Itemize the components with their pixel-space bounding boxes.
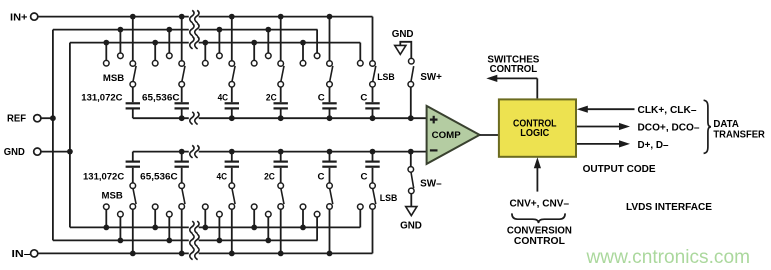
svg-text:LVDS INTERFACE: LVDS INTERFACE <box>626 202 712 213</box>
capacitor C1 (MSB, 131,072C) top <box>126 87 140 118</box>
switch S3 bottom: GND contact stub <box>202 204 208 230</box>
svg-text:2C: 2C <box>264 172 275 183</box>
switch S2 bottom: arm and pivot <box>179 183 185 204</box>
switch S2 bottom: throw contact from IN- rail <box>179 204 185 257</box>
label value C top <box>318 92 325 103</box>
wire REF bus: top rail2, left drop, bottom rail2 <box>53 30 318 241</box>
switch S5 bottom: arm and pivot <box>327 183 333 204</box>
label value 65,536C top <box>142 92 180 103</box>
switch SW- with wire to GND <box>408 149 414 207</box>
watermark www.cntronics.com <box>586 246 750 268</box>
svg-text:TRANSFER: TRANSFER <box>713 129 765 140</box>
label value 2C top <box>266 92 277 103</box>
junction REF bus tap <box>50 115 56 121</box>
label LVDS INTERFACE <box>626 202 712 213</box>
svg-text:2C: 2C <box>266 92 277 103</box>
switch S2 top: REF contact stub <box>166 27 172 59</box>
svg-text:DCO+, DCO–: DCO+, DCO– <box>638 123 700 134</box>
switch S5 top: REF contact stub <box>314 30 320 59</box>
switch S3 bottom: REF contact stub <box>217 211 223 243</box>
node IN+ terminal and label <box>10 12 38 23</box>
capacitor C5 (C) bottom <box>322 149 336 183</box>
wire-break mark on rail3 lower <box>190 221 199 234</box>
label value 4C bottom <box>217 172 228 183</box>
capacitor C5 (C) top <box>322 87 336 121</box>
label value 2C bottom <box>264 172 275 183</box>
switch S4 top: REF contact stub <box>265 27 271 59</box>
switch S1 bottom: arm and pivot <box>130 183 136 204</box>
switch S6 top: GND contact stub (rail3 end) <box>358 43 364 66</box>
svg-text:4C: 4C <box>218 92 229 103</box>
switch S1 top: GND contact stub <box>103 40 109 66</box>
svg-text:IN+: IN+ <box>10 12 28 23</box>
ground symbol (bottom, below SW-) <box>400 207 422 232</box>
switch S4 top: arm and pivot <box>278 66 284 87</box>
switch S3 bottom: arm and pivot <box>229 183 235 204</box>
wire-break mark on bottom common rail <box>190 145 199 158</box>
label value 65,536C bottom <box>140 172 178 183</box>
switch S6 bottom: throw contact from IN- rail <box>370 204 376 254</box>
label CNV+, CNV- <box>510 199 570 210</box>
switch S1 bottom: throw contact from IN- rail <box>130 204 136 257</box>
switch S3 top: arm and pivot <box>229 66 235 87</box>
control logic block U2 <box>499 99 576 156</box>
switch S6 bottom: GND contact stub (rail3 end) <box>358 204 364 227</box>
label D+, D- <box>638 140 669 151</box>
switch S1 top: REF contact stub <box>118 27 124 59</box>
svg-text:GND: GND <box>4 147 25 158</box>
svg-text:65,536C: 65,536C <box>140 172 178 183</box>
label DCO+, DCO- <box>638 123 700 134</box>
capacitor C4 (2C) bottom <box>274 149 288 183</box>
wire IN+ top rail (rail1) <box>38 16 373 18</box>
label OUTPUT CODE <box>583 164 656 175</box>
svg-text:MSB: MSB <box>103 73 124 84</box>
switch S6 bottom: arm and pivot <box>370 183 376 204</box>
wire GND terminal to GND bus <box>41 151 70 153</box>
switch S5 bottom: REF contact stub <box>314 211 320 240</box>
label value C bottom <box>361 172 368 183</box>
brace data-transfer group <box>704 100 711 153</box>
wire GND bus: top rail3, left drop, bottom rail3 <box>70 43 360 228</box>
switch S5 top: arm and pivot <box>327 66 333 87</box>
capacitor C4 (2C) top <box>274 87 288 121</box>
svg-text:C: C <box>361 172 368 183</box>
capacitor C2 (65,536C) bottom <box>175 149 189 183</box>
svg-text:LSB: LSB <box>380 193 398 204</box>
switch S4 bottom: GND contact stub <box>251 204 257 230</box>
switch S2 top: throw contact from IN+ rail <box>179 14 185 67</box>
switch SW+ with wire to GND <box>400 42 414 121</box>
switch S4 bottom: throw contact from IN- rail <box>278 204 284 257</box>
svg-text:SW–: SW– <box>420 178 442 189</box>
switch S3 top: throw contact from IN+ rail <box>229 14 235 67</box>
wire IN- bottom rail <box>38 252 373 254</box>
label CLK+, CLK- <box>638 105 697 116</box>
svg-text:www.cntronics.com: www.cntronics.com <box>586 246 750 268</box>
capacitor C3 (4C) top <box>225 87 239 121</box>
ground symbol (top, above SW+) <box>392 29 414 54</box>
capacitor C6 (LSB, C) top <box>365 87 379 121</box>
svg-text:GND: GND <box>392 29 414 40</box>
label value C bottom <box>318 172 325 183</box>
svg-text:GND: GND <box>400 221 422 232</box>
switch S3 top: GND contact stub <box>202 40 208 66</box>
switch S1 bottom: GND contact stub <box>103 204 109 230</box>
svg-text:OUTPUT CODE: OUTPUT CODE <box>583 164 656 175</box>
svg-text:LSB: LSB <box>377 72 395 83</box>
label SWITCHES CONTROL <box>487 55 539 76</box>
svg-text:COMP: COMP <box>432 130 461 140</box>
switch S4 top: GND contact stub <box>251 40 257 66</box>
switch S1 top: arm and pivot <box>130 66 136 87</box>
switch S6 top: throw contact from IN+ rail <box>370 17 376 67</box>
capacitor C1 (MSB, 131,072C) bottom <box>126 152 140 183</box>
svg-text:C: C <box>318 172 325 183</box>
label CONVERSION CONTROL <box>507 225 572 246</box>
wire comparator output to control logic <box>480 134 499 136</box>
label MSB bottom <box>102 191 123 202</box>
svg-text:CONVERSION: CONVERSION <box>507 225 572 236</box>
svg-text:131,072C: 131,072C <box>81 92 122 103</box>
svg-text:CONTROL: CONTROL <box>490 64 538 75</box>
switch S5 top: throw contact from IN+ rail <box>327 14 333 67</box>
switch S5 bottom: throw contact from IN- rail <box>327 204 333 257</box>
capacitor C6 (LSB, C) bottom <box>365 149 379 183</box>
brace conversion-control group (underbrace) <box>512 213 565 223</box>
wire-break mark on rail3 (GND) <box>190 36 199 49</box>
switch S6 top: arm and pivot <box>370 66 376 87</box>
svg-text:65,536C: 65,536C <box>142 92 180 103</box>
wire-break mark on rail1 (IN+) <box>190 10 199 23</box>
svg-text:SW+: SW+ <box>420 72 442 83</box>
switch S4 bottom: arm and pivot <box>278 183 284 204</box>
switch S1 top: throw contact from IN+ rail <box>130 14 136 67</box>
svg-text:CLK+, CLK–: CLK+, CLK– <box>638 105 697 116</box>
wire REF terminal to REF bus <box>41 117 53 119</box>
switch S4 bottom: REF contact stub <box>265 211 271 243</box>
label SW- <box>420 178 442 189</box>
switch S5 bottom: GND contact stub <box>300 204 306 230</box>
switch S2 bottom: GND contact stub <box>152 204 158 230</box>
label LSB top <box>377 72 395 83</box>
wire-break mark on rail2 (REF) <box>190 23 199 36</box>
node IN- terminal and label <box>12 249 38 260</box>
svg-text:CNV+, CNV–: CNV+, CNV– <box>510 199 570 210</box>
label value 131,072C top <box>81 92 122 103</box>
op-amp comparator U1 <box>427 106 480 164</box>
switch S4 top: throw contact from IN+ rail <box>278 14 284 67</box>
wire-break mark on top common rail <box>190 112 199 125</box>
svg-text:4C: 4C <box>217 172 228 183</box>
label LSB bottom <box>380 193 398 204</box>
label value 131,072C bottom <box>83 172 124 183</box>
svg-text:C: C <box>318 92 325 103</box>
svg-text:REF: REF <box>7 114 26 125</box>
switch S1 bottom: REF contact stub <box>118 211 124 243</box>
junction GND bus tap <box>67 149 73 155</box>
switch S3 bottom: throw contact from IN- rail <box>229 204 235 257</box>
svg-text:LOGIC: LOGIC <box>520 128 549 139</box>
label value 4C top <box>218 92 229 103</box>
svg-text:131,072C: 131,072C <box>83 172 124 183</box>
node GND terminal and label <box>4 147 41 158</box>
wire CNV input arrow into control logic bottom <box>534 157 541 191</box>
svg-text:C: C <box>360 92 367 103</box>
switch S2 top: arm and pivot <box>179 66 185 87</box>
svg-text:CONTROL: CONTROL <box>514 236 566 247</box>
wire top common plate rail to comparator + input <box>133 117 427 119</box>
switch S2 top: GND contact stub <box>152 40 158 66</box>
capacitor C2 (65,536C) top <box>175 87 189 121</box>
switch S2 bottom: REF contact stub <box>166 211 172 243</box>
wire DCO output arrow from control logic <box>577 123 630 130</box>
svg-text:IN–: IN– <box>12 249 32 260</box>
capacitor C3 (4C) bottom <box>225 149 239 183</box>
label value C top <box>360 92 367 103</box>
node REF terminal and label <box>7 114 41 125</box>
switch S3 top: REF contact stub <box>217 27 223 59</box>
switch S5 top: GND contact stub <box>300 40 306 66</box>
wire-break mark on rail2 lower <box>190 234 199 247</box>
svg-text:D+, D–: D+, D– <box>638 140 669 151</box>
label DATA TRANSFER <box>713 119 765 140</box>
wire D output arrow from control logic <box>577 140 630 147</box>
svg-text:MSB: MSB <box>102 191 123 202</box>
label MSB top <box>103 73 124 84</box>
label SW+ <box>420 72 442 83</box>
wire-break mark on rail1 lower (IN-) <box>190 247 199 260</box>
wire bottom common plate rail to comparator - input <box>133 151 427 153</box>
wire switches-control from control logic with left arrow <box>486 75 537 99</box>
wire CLK input arrow into control logic <box>577 106 635 113</box>
